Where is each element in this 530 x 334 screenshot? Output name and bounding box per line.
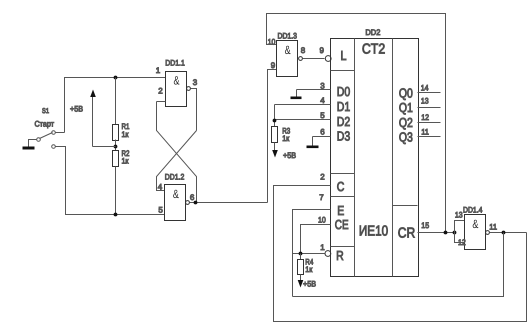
svg-text:DD1.2: DD1.2 [165,172,185,181]
wire R1-R2 link [115,140,117,151]
svg-text:CR: CR [398,226,416,242]
svg-text:Q3: Q3 [399,129,413,144]
wire R1 top vertical [115,78,117,125]
pin 2 stub DD1.1 [157,101,166,103]
svg-text:+5В: +5В [283,151,296,160]
power +5V arrow R4 [300,275,302,281]
bubble DD1.3 output [299,57,303,61]
wire Q3 pin11 [418,136,441,138]
node junction R1 top [114,76,118,80]
svg-text:1к: 1к [305,265,312,274]
separator under C [331,196,355,198]
svg-text:CE: CE [335,217,349,232]
wire C input loop [274,186,527,322]
svg-text:1к: 1к [282,134,289,143]
bubble R input [325,251,331,257]
wire D0 pin3 [297,89,331,91]
svg-text:Q0: Q0 [399,85,413,100]
wire CR pin15 to DD1.4 [418,232,455,234]
node DD1.2 output junction [194,201,198,205]
resistor R1 [113,125,119,141]
separator under CE [331,246,355,248]
wire Q2 pin12 [418,122,441,124]
power +5V arrow left [93,146,116,148]
svg-text:DD1.4: DD1.4 [463,206,483,215]
svg-text:12: 12 [421,113,429,122]
svg-text:8: 8 [301,46,306,55]
svg-text:ИЕ10: ИЕ10 [359,224,388,240]
svg-text:2: 2 [320,173,325,182]
wire D1 pin4 [275,104,331,106]
wire switch lower to bottom rail [56,147,165,215]
svg-text:5: 5 [320,111,325,120]
separator right column [393,205,418,207]
bubble L input [325,56,331,62]
wire cross coupling B [157,131,197,191]
ground D0 [296,90,298,97]
node DD1.4 output junction [502,231,506,235]
node junction R2 bottom [114,213,118,217]
wire DD1.3 pin10 up to top feedback [267,14,446,233]
svg-text:L: L [341,48,347,63]
svg-text:10: 10 [318,215,326,224]
op-amp DD1.4 nand gate [465,215,486,250]
svg-text:D2: D2 [337,114,350,129]
bubble DD1.1 output [187,87,191,91]
resistor R2 [113,151,119,167]
wire switch common to ground [29,140,37,147]
counter DD2 box [331,39,419,277]
node R1-R2 junction [114,145,118,149]
ground D3 [312,137,314,146]
svg-text:D3: D3 [337,129,350,144]
svg-text:7: 7 [319,193,324,202]
svg-text:&: & [173,187,179,201]
svg-text:DD1.1: DD1.1 [165,58,185,67]
ground (switch) [23,147,35,150]
svg-text:5: 5 [158,206,163,215]
svg-text:6: 6 [190,193,195,202]
svg-text:1: 1 [320,243,325,252]
node DD1.4 input junction [453,231,457,235]
resistor R4 [300,254,302,260]
wire Q1 pin13 [418,107,441,109]
svg-text:D1: D1 [337,99,350,114]
wire Q0 pin14 [418,92,441,94]
svg-text:Q1: Q1 [399,100,413,115]
svg-text:C: C [337,179,345,194]
svg-text:1: 1 [156,66,161,75]
svg-text:D0: D0 [337,84,350,99]
wire inner bottom return to R input [293,233,504,297]
svg-text:9: 9 [271,61,276,70]
op-amp DD1.2 nand gate [165,185,186,221]
bubble DD1.2 output [186,201,190,205]
wire CE input [301,225,331,254]
svg-text:CT2: CT2 [362,42,385,58]
node CR feedback junction [444,231,448,235]
svg-text:3: 3 [320,81,325,90]
wire cross coupling A [157,102,197,203]
svg-text:1к: 1к [122,156,129,165]
svg-text:10: 10 [268,37,276,46]
svg-text:S1: S1 [42,108,49,115]
svg-text:DD1.3: DD1.3 [278,31,298,40]
svg-text:R: R [336,248,344,263]
svg-text:12: 12 [458,238,466,247]
svg-text:13: 13 [421,96,429,105]
wire D3 pin6 [313,136,331,138]
wire DD1.2 out up to DD1.3 pin 9 [268,70,277,203]
node R4 top [299,252,303,256]
wire DD1.3 output to counter L [303,58,325,60]
power +5V arrow R3 [274,143,276,151]
resistor R3 [272,127,278,143]
svg-text:2: 2 [158,86,163,95]
wire DD1.4 output [490,232,527,234]
svg-text:+5В: +5В [303,280,316,289]
switch S1 [52,131,56,135]
bubble DD1.4 output [486,231,490,235]
op-amp DD1.3 nand gate [277,41,298,77]
wire D2 pin5 [275,119,331,121]
svg-text:11: 11 [421,128,429,137]
wire R3 node vertical [274,105,276,127]
wire R2 bottom vertical [115,167,117,215]
svg-text:3: 3 [193,78,198,87]
svg-text:Старт: Старт [35,119,55,128]
wire E input [293,210,331,297]
svg-text:&: & [472,217,478,231]
wire DD1.2 output to right [190,202,268,204]
svg-text:9: 9 [320,46,325,55]
svg-text:DD2: DD2 [365,28,381,37]
svg-text:Q2: Q2 [399,115,413,130]
svg-text:4: 4 [320,96,325,105]
svg-text:&: & [285,43,291,57]
svg-text:14: 14 [421,84,429,93]
wire DD1.4 input bracket [455,221,465,243]
svg-text:15: 15 [421,221,429,230]
op-amp DD1.1 nand gate [166,72,187,107]
wire DD1.1 output [191,89,197,131]
svg-text:1к: 1к [122,130,129,139]
svg-text:E: E [337,203,344,218]
svg-text:6: 6 [320,128,325,137]
wire R input [293,253,325,255]
svg-text:13: 13 [455,211,463,220]
separator above C [331,173,355,175]
separator under L [331,70,355,72]
svg-text:4: 4 [158,183,163,192]
wire top from switch to DD1.1 pin1 [65,78,166,133]
svg-text:&: & [174,73,180,87]
node R3 top [273,119,277,123]
counter inner column lines [354,39,356,277]
svg-text:+5В: +5В [70,105,83,114]
svg-text:11: 11 [489,222,497,231]
